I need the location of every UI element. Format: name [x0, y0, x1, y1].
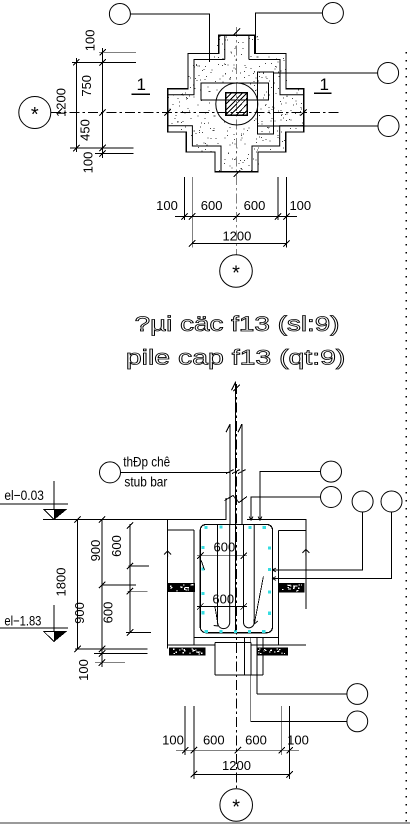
svg-text:*: *: [31, 104, 39, 126]
stipple concrete texture: [168, 36, 304, 173]
callout circle C5: [347, 684, 368, 705]
svg-text:600: 600: [214, 540, 236, 555]
stub bar label leader: [121, 471, 231, 473]
svg-text:1200: 1200: [222, 758, 251, 773]
svg-text:100: 100: [81, 152, 96, 174]
svg-text:1200: 1200: [222, 229, 251, 244]
leader right upper: [274, 72, 378, 74]
leader top-left: [130, 14, 209, 62]
stub bar center: [232, 381, 236, 524]
svg-text:?µi cäc f13 (sl:9): ?µi cäc f13 (sl:9): [135, 313, 340, 336]
svg-text:1800: 1800: [54, 568, 69, 597]
svg-text:100: 100: [76, 659, 91, 681]
U-bar 1: [218, 525, 230, 629]
ground line right: [247, 519, 307, 521]
excavation line right: [305, 520, 307, 610]
leader C6: [251, 720, 347, 722]
svg-text:1: 1: [320, 75, 329, 94]
left dimension chain (section): 1800 / 900+900 / 600+600 / 100: [75, 520, 151, 668]
callout circle C4: [381, 491, 402, 512]
leader top-right: [255, 13, 322, 54]
svg-text:100: 100: [162, 733, 184, 748]
leader C2: [249, 497, 320, 521]
leader to bottom-left bars: [214, 607, 219, 626]
lean concrete line left: [168, 644, 215, 646]
break marks on bars: [225, 470, 247, 503]
callout circle C3: [352, 491, 373, 512]
soil hatch strips: [167, 583, 195, 592]
column square with hatch: [226, 93, 248, 116]
pile cap outer stepped outline: [168, 35, 304, 172]
dim line 1200: [192, 243, 286, 245]
section mark 1 left: [137, 75, 146, 94]
svg-text:600: 600: [201, 198, 223, 213]
svg-text:100: 100: [83, 30, 98, 52]
pile below cap: [215, 643, 263, 675]
svg-text:450: 450: [78, 119, 93, 141]
lean concrete line right: [251, 644, 306, 646]
leader C4: [272, 512, 392, 580]
svg-text:600: 600: [212, 591, 234, 606]
U-bar 2: [244, 525, 255, 628]
pile circle: [216, 83, 258, 125]
svg-text:stub bar: stub bar: [124, 474, 167, 490]
stirrup rounded rectangle: [200, 525, 272, 633]
pile cap section left edge: [193, 530, 195, 645]
backfill line left: [168, 529, 194, 531]
leader C3: [272, 512, 363, 572]
ground line left: [68, 498, 226, 520]
svg-text:pile cap f13 (qt:9): pile cap f13 (qt:9): [126, 346, 346, 370]
stub bar label circle: [100, 462, 121, 483]
svg-text:100: 100: [156, 198, 178, 213]
backfill line right: [278, 529, 306, 531]
slope arrows: [164, 549, 309, 557]
center bar into cap: [235, 525, 237, 631]
svg-text:el−0.03: el−0.03: [4, 487, 44, 503]
svg-text:600: 600: [245, 733, 267, 748]
callout circle top-right: [255, 3, 343, 54]
section mark 1 right: [320, 75, 329, 94]
pile cap bottom: [194, 636, 279, 638]
svg-text:600: 600: [101, 602, 116, 624]
pile cap inner step outline: [168, 35, 304, 172]
svg-text:*: *: [232, 263, 240, 285]
rebar section dots: [201, 525, 271, 633]
grid bubble bottom of section: [220, 789, 253, 822]
left dimension lines (top plan): [70, 48, 136, 158]
centerline vertical (section): [236, 384, 238, 788]
leader verticals below cap: [245, 637, 264, 721]
dim line 100-600-600-100: [175, 216, 297, 218]
stub bars rectangle horizontal: [201, 83, 269, 100]
svg-text:1200: 1200: [54, 88, 69, 117]
grid line horizontal (top plan): [51, 112, 340, 114]
svg-text:900: 900: [72, 602, 87, 624]
excavation line left: [167, 520, 169, 649]
callout circle right lower: [258, 116, 399, 137]
svg-text:thÐp chê: thÐp chê: [123, 454, 170, 470]
centerline vertical (top plan): [236, 27, 238, 255]
leader right lower: [258, 125, 378, 127]
svg-text:600: 600: [203, 733, 225, 748]
stub bar right: [238, 424, 242, 524]
leader C1: [258, 472, 320, 521]
bottom dims (section) extension lines: [176, 706, 299, 779]
svg-text:900: 900: [88, 540, 103, 562]
callout circle C6: [347, 711, 368, 732]
pile cap section right edge: [277, 530, 279, 645]
svg-text:*: *: [232, 797, 240, 819]
dim line 100-600-600-100: [176, 749, 299, 751]
svg-text:1: 1: [137, 75, 146, 94]
ticks on centerlines: [164, 28, 306, 176]
dotted page border right: [406, 52, 408, 822]
callout circle right upper: [274, 63, 399, 84]
svg-text:100: 100: [289, 198, 311, 213]
stub bars rectangle vertical: [258, 72, 274, 134]
svg-text:600: 600: [109, 535, 124, 557]
svg-text:600: 600: [244, 198, 266, 213]
grid bubble left with asterisk: [19, 97, 62, 129]
svg-text:el−1.83: el−1.83: [4, 613, 41, 629]
leader C5: [257, 693, 347, 695]
callout circle top-left: [109, 4, 209, 62]
bottom window edge: [0, 822, 410, 824]
callout circle C1: [321, 461, 342, 482]
stub bar left: [226, 424, 230, 524]
bottom dimension (top plan) extension lines: [175, 177, 297, 248]
grid bubble bottom with asterisk: [220, 255, 253, 288]
svg-text:750: 750: [79, 75, 94, 97]
callout circle C2: [321, 487, 342, 508]
dim line 1200: [194, 773, 290, 775]
svg-text:100: 100: [287, 733, 309, 748]
leader to U2 bottom: [254, 577, 264, 625]
